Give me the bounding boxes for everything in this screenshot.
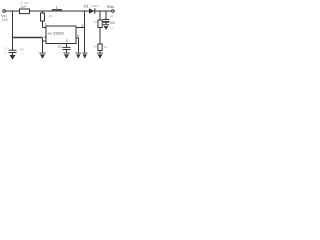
terminal VIN [3, 10, 6, 13]
capacitor CL plates [103, 19, 109, 21]
svg-text:1.5V: 1.5V [1, 18, 9, 22]
diode D1 cathode bar [94, 8, 96, 14]
wire pin 2 vertical to ground [84, 11, 86, 53]
wire input rail down x=12.5 [12, 11, 14, 50]
capacitor C1 plates [9, 50, 17, 55]
terminal VOUT [112, 10, 115, 13]
wire R1 to pin 1 [43, 21, 47, 28]
svg-text:1: 1 [44, 23, 46, 27]
ground under C1 [10, 55, 16, 60]
svg-text:10μ: 10μ [20, 47, 25, 51]
svg-text:CL: CL [110, 14, 114, 18]
svg-text:1N5817: 1N5817 [91, 4, 101, 8]
wire top rail VIN to VOUT [6, 10, 112, 12]
ground under pin 5 [76, 53, 82, 59]
diode D1 triangle [89, 8, 94, 14]
svg-text:C2: C2 [58, 45, 62, 49]
resistor R3 (lower divider box) [98, 44, 102, 51]
svg-text:100: 100 [109, 21, 115, 25]
ground under pin 2 branch [82, 53, 88, 59]
wire pin 2 stub [76, 27, 85, 29]
resistor R2 (upper divider box) [98, 20, 102, 28]
wire output cap branch [105, 11, 107, 19]
wire pin 3 stub [66, 44, 68, 48]
svg-text:5: 5 [77, 34, 79, 38]
wire pin 5 stub [76, 38, 79, 53]
op-amp U1 IC box [46, 26, 76, 44]
svg-text:xx-31862: xx-31862 [48, 31, 65, 36]
svg-text:1M: 1M [103, 45, 108, 49]
svg-text:25V: 25V [110, 27, 115, 31]
svg-text:2μF: 2μF [21, 5, 27, 9]
svg-text:1μ: 1μ [4, 51, 7, 55]
ground under CL [103, 24, 109, 30]
svg-text:D1: D1 [84, 5, 89, 9]
ground under C2 [63, 53, 69, 59]
svg-text:R2: R2 [94, 20, 98, 24]
capacitor C2 plates [63, 47, 71, 52]
resistor RSC (box on top rail) [20, 9, 30, 14]
svg-text:4: 4 [44, 36, 46, 40]
svg-text:R1: R1 [49, 14, 53, 18]
svg-text:Vout: Vout [107, 4, 114, 9]
svg-text:2: 2 [81, 24, 83, 28]
ground under pin 4 [39, 53, 45, 59]
wire branch FB divider [99, 11, 101, 53]
inductor L [52, 10, 62, 12]
resistor R1 (vertical box) [41, 13, 45, 21]
ground under divider [97, 53, 103, 59]
wire pin 4 rail [13, 37, 43, 39]
svg-text:R3: R3 [94, 44, 98, 48]
wire node to R1 vertical [42, 11, 44, 13]
svg-text:C1: C1 [4, 46, 8, 50]
svg-text:L: L [56, 5, 58, 9]
svg-text:3: 3 [66, 39, 68, 43]
